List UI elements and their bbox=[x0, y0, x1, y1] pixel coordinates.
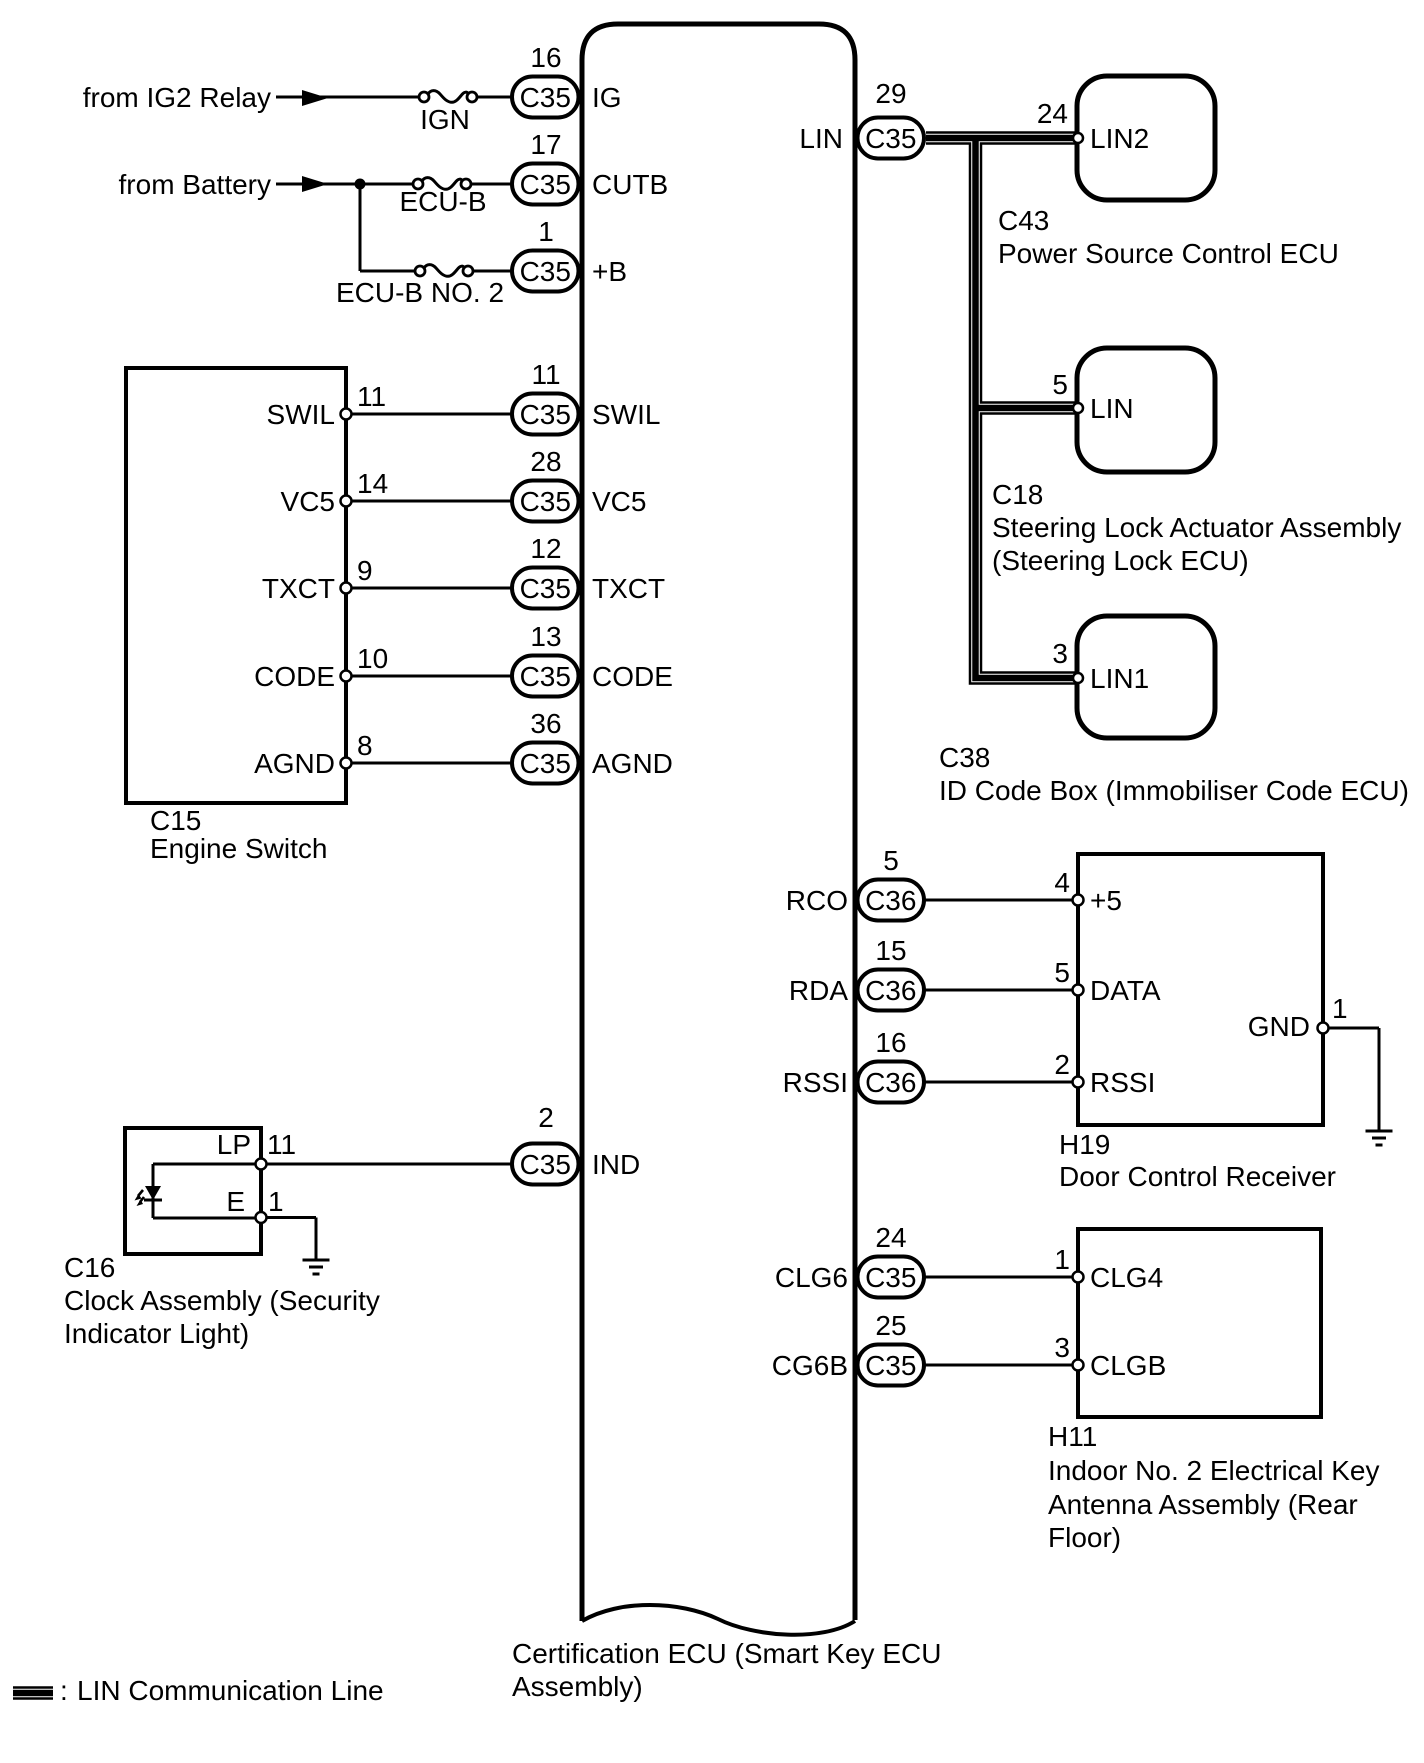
svg-text:36: 36 bbox=[530, 708, 561, 739]
svg-text:16: 16 bbox=[530, 42, 561, 73]
svg-text:24: 24 bbox=[875, 1222, 906, 1253]
svg-text:CG6B: CG6B bbox=[772, 1350, 848, 1381]
svg-text:5: 5 bbox=[1054, 957, 1070, 988]
svg-text:8: 8 bbox=[357, 730, 373, 761]
svg-text:9: 9 bbox=[357, 555, 373, 586]
svg-text:AGND: AGND bbox=[592, 748, 673, 779]
svg-text:25: 25 bbox=[875, 1310, 906, 1341]
svg-text:13: 13 bbox=[530, 621, 561, 652]
svg-text:(Steering Lock ECU): (Steering Lock ECU) bbox=[992, 545, 1249, 576]
svg-text:16: 16 bbox=[875, 1027, 906, 1058]
svg-text:E: E bbox=[226, 1186, 245, 1217]
svg-text:10: 10 bbox=[357, 643, 388, 674]
svg-text:CLG4: CLG4 bbox=[1090, 1262, 1163, 1293]
svg-text:C36: C36 bbox=[865, 885, 916, 916]
svg-text:RSSI: RSSI bbox=[1090, 1067, 1155, 1098]
svg-text:LP: LP bbox=[217, 1129, 251, 1160]
svg-text:C35: C35 bbox=[520, 573, 571, 604]
svg-text:C18: C18 bbox=[992, 479, 1043, 510]
svg-text:C35: C35 bbox=[520, 748, 571, 779]
svg-text:from IG2 Relay: from IG2 Relay bbox=[83, 82, 271, 113]
svg-text:15: 15 bbox=[875, 935, 906, 966]
svg-text:IGN: IGN bbox=[420, 104, 470, 135]
svg-text:+5: +5 bbox=[1090, 885, 1122, 916]
svg-text:DATA: DATA bbox=[1090, 975, 1161, 1006]
svg-text:IG: IG bbox=[592, 82, 622, 113]
svg-text:C36: C36 bbox=[865, 1067, 916, 1098]
svg-text:24: 24 bbox=[1037, 98, 1068, 129]
svg-text:RDA: RDA bbox=[789, 975, 848, 1006]
svg-text:H19: H19 bbox=[1059, 1129, 1110, 1160]
svg-text:1: 1 bbox=[538, 216, 554, 247]
svg-text:LIN: LIN bbox=[1090, 393, 1134, 424]
svg-text:C35: C35 bbox=[865, 1350, 916, 1381]
svg-text:Door Control Receiver: Door Control Receiver bbox=[1059, 1161, 1336, 1192]
svg-text:RCO: RCO bbox=[786, 885, 848, 916]
svg-text:C35: C35 bbox=[520, 661, 571, 692]
svg-text:C38: C38 bbox=[939, 742, 990, 773]
svg-text:11: 11 bbox=[267, 1129, 296, 1160]
svg-text:C36: C36 bbox=[865, 975, 916, 1006]
svg-text:H11: H11 bbox=[1048, 1421, 1097, 1452]
svg-text:+B: +B bbox=[592, 256, 627, 287]
svg-text:Floor): Floor) bbox=[1048, 1522, 1121, 1553]
svg-text:AGND: AGND bbox=[254, 748, 335, 779]
svg-text:CODE: CODE bbox=[592, 661, 673, 692]
svg-text:C35: C35 bbox=[865, 123, 916, 154]
svg-text:ID Code Box (Immobiliser Code: ID Code Box (Immobiliser Code ECU) bbox=[939, 775, 1409, 806]
svg-text:VC5: VC5 bbox=[592, 486, 646, 517]
svg-text:3: 3 bbox=[1052, 638, 1068, 669]
svg-text:4: 4 bbox=[1054, 867, 1070, 898]
svg-text:11: 11 bbox=[357, 381, 386, 412]
svg-text:14: 14 bbox=[357, 468, 388, 499]
svg-text:TXCT: TXCT bbox=[592, 573, 665, 604]
svg-text:1: 1 bbox=[1054, 1244, 1070, 1275]
svg-text:LIN: LIN bbox=[799, 123, 843, 154]
svg-text:C35: C35 bbox=[520, 1149, 571, 1180]
svg-text:C35: C35 bbox=[865, 1262, 916, 1293]
svg-text:12: 12 bbox=[530, 533, 561, 564]
svg-text:C35: C35 bbox=[520, 82, 571, 113]
svg-text:29: 29 bbox=[875, 78, 906, 109]
svg-text:SWIL: SWIL bbox=[592, 399, 660, 430]
svg-text:ECU-B NO. 2: ECU-B NO. 2 bbox=[336, 277, 504, 308]
svg-text:VC5: VC5 bbox=[281, 486, 335, 517]
svg-text:Indoor No. 2 Electrical Key: Indoor No. 2 Electrical Key bbox=[1048, 1455, 1380, 1486]
svg-text:1: 1 bbox=[1332, 993, 1348, 1024]
svg-text:5: 5 bbox=[883, 845, 899, 876]
svg-text:C35: C35 bbox=[520, 486, 571, 517]
svg-text:GND: GND bbox=[1248, 1011, 1310, 1042]
svg-text:C43: C43 bbox=[998, 205, 1049, 236]
svg-text:2: 2 bbox=[538, 1102, 554, 1133]
svg-text:Power Source Control ECU: Power Source Control ECU bbox=[998, 238, 1339, 269]
svg-text:LIN1: LIN1 bbox=[1090, 663, 1149, 694]
svg-text:SWIL: SWIL bbox=[267, 399, 335, 430]
svg-text:2: 2 bbox=[1054, 1049, 1070, 1080]
svg-text:C16: C16 bbox=[64, 1252, 115, 1283]
svg-text:LIN2: LIN2 bbox=[1090, 123, 1149, 154]
svg-text:Antenna Assembly (Rear: Antenna Assembly (Rear bbox=[1048, 1489, 1358, 1520]
svg-text:Steering Lock Actuator Assembl: Steering Lock Actuator Assembly bbox=[992, 512, 1401, 543]
svg-text:Assembly): Assembly) bbox=[512, 1671, 643, 1702]
svg-text:11: 11 bbox=[531, 359, 560, 390]
svg-text:Clock Assembly (Security: Clock Assembly (Security bbox=[64, 1285, 380, 1316]
svg-text:from Battery: from Battery bbox=[119, 169, 271, 200]
svg-text:IND: IND bbox=[592, 1149, 640, 1180]
svg-text:C35: C35 bbox=[520, 256, 571, 287]
svg-text:RSSI: RSSI bbox=[783, 1067, 848, 1098]
svg-text:C15: C15 bbox=[150, 805, 201, 836]
svg-text:C35: C35 bbox=[520, 169, 571, 200]
svg-text:CLGB: CLGB bbox=[1090, 1350, 1166, 1381]
svg-text:CUTB: CUTB bbox=[592, 169, 668, 200]
svg-text:ECU-B: ECU-B bbox=[399, 186, 486, 217]
svg-text:3: 3 bbox=[1054, 1332, 1070, 1363]
svg-text:Certification ECU (Smart Key E: Certification ECU (Smart Key ECU bbox=[512, 1638, 941, 1669]
svg-text:Engine Switch: Engine Switch bbox=[150, 833, 327, 864]
svg-text:CODE: CODE bbox=[254, 661, 335, 692]
svg-text:5: 5 bbox=[1052, 369, 1068, 400]
svg-text:C35: C35 bbox=[520, 399, 571, 430]
svg-text:1: 1 bbox=[268, 1186, 284, 1217]
svg-text:TXCT: TXCT bbox=[262, 573, 335, 604]
svg-text::: : bbox=[60, 1675, 68, 1706]
svg-text:17: 17 bbox=[530, 129, 561, 160]
svg-text:28: 28 bbox=[530, 446, 561, 477]
svg-text:Indicator Light): Indicator Light) bbox=[64, 1318, 249, 1349]
svg-text:CLG6: CLG6 bbox=[775, 1262, 848, 1293]
svg-text:LIN Communication Line: LIN Communication Line bbox=[77, 1675, 384, 1706]
